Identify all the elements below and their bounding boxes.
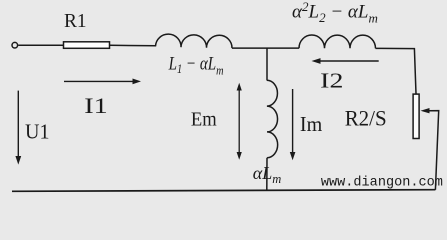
wire (110, 44, 157, 47)
wire (18, 44, 63, 46)
svg-text:I1: I1 (84, 94, 108, 118)
svg-text:R1: R1 (64, 10, 87, 32)
arrow I2 (312, 58, 379, 64)
svg-text:Im: Im (300, 112, 323, 136)
inductor L1-aLm (156, 34, 233, 48)
wire (266, 158, 268, 191)
wire (bottom rail) (12, 190, 435, 192)
svg-text:U1: U1 (25, 119, 50, 143)
wire (376, 48, 417, 93)
arrow Em (double headed) (237, 83, 242, 160)
wiper arrow wire (421, 108, 439, 190)
svg-text:Em: Em (191, 108, 217, 130)
terminal circle (12, 42, 18, 48)
wire (232, 47, 299, 49)
resistor R1 (64, 42, 110, 49)
arrow U1 (15, 91, 21, 165)
resistor R2/S (413, 94, 419, 138)
wire (266, 48, 268, 80)
inductor aLm (magnetizing branch) (267, 80, 278, 157)
arrow I1 (64, 79, 141, 85)
inductor a2L2-aLm (299, 35, 376, 48)
svg-text:www.diangon.com: www.diangon.com (321, 174, 443, 190)
svg-text:L1 − αLm: L1 − αLm (168, 54, 224, 78)
svg-text:I2: I2 (320, 68, 343, 92)
arrow Im (290, 89, 296, 160)
svg-text:R2/S: R2/S (345, 106, 387, 131)
